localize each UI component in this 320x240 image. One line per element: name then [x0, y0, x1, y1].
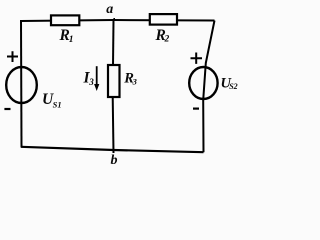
svg-text:b: b [111, 153, 118, 168]
svg-text:a: a [106, 2, 113, 17]
wire middle branch lower: R3 down to node b [112, 97, 115, 154]
voltage source U_S2 circle [189, 67, 217, 99]
wire right branch: top-right corner down through source to bottom-right corner [203, 21, 214, 153]
svg-text:S1: S1 [53, 100, 62, 110]
current I3 arrow [94, 66, 99, 91]
resistor R2 body [150, 14, 177, 25]
voltage source U_S1 plus sign [7, 51, 18, 62]
voltage source U_S1 circle [6, 67, 37, 103]
svg-text:3: 3 [132, 77, 138, 87]
wire bottom: left corner to node b to right corner [21, 147, 204, 152]
wire middle branch upper: node a down to R3 [112, 20, 115, 66]
svg-text:1: 1 [69, 35, 74, 45]
resistor R1 body [51, 15, 79, 25]
wire top: left corner to node a to right corner [21, 20, 215, 21]
resistor R3 body [108, 65, 120, 97]
svg-text:S2: S2 [229, 82, 237, 91]
voltage source U_S2 plus sign [191, 53, 203, 64]
voltage source U_S2 minus sign [193, 107, 199, 109]
wire left branch: top-left corner down through source to bottom-left corner [20, 20, 23, 148]
node a junction stub [113, 18, 115, 21]
svg-text:2: 2 [164, 35, 170, 45]
voltage source U_S1 minus sign [4, 108, 10, 110]
svg-text:3: 3 [88, 77, 94, 87]
